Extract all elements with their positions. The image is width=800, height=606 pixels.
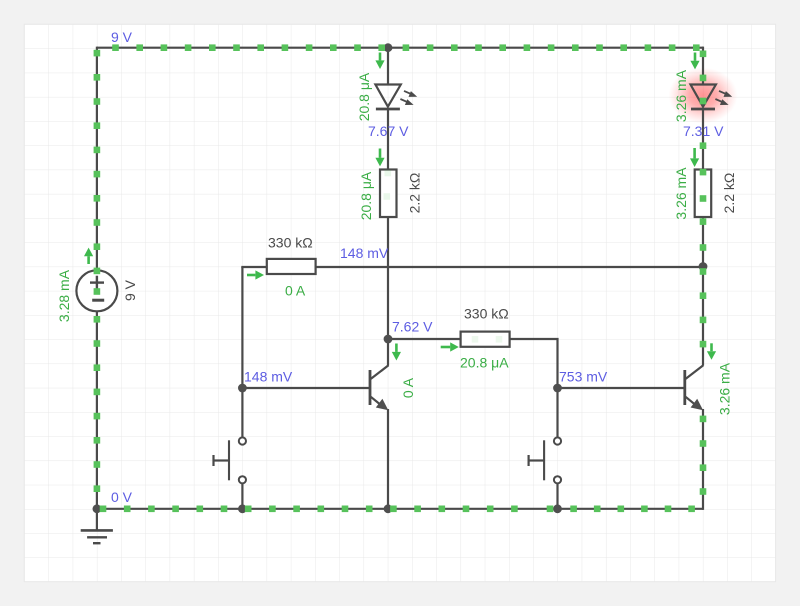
wire R4 to Q2 collector (148 mV net): [702, 216, 704, 366]
svg-text:7.62 V: 7.62 V: [392, 319, 433, 335]
wire Q2 base: [558, 387, 685, 389]
LED D2 (lit): [691, 85, 716, 107]
resistor R3 2.2k (center): [380, 170, 397, 218]
svg-text:9 V: 9 V: [122, 279, 138, 301]
svg-text:9 V: 9 V: [111, 29, 133, 45]
current dots right branch: [700, 51, 707, 58]
current dots bottom rail left: [100, 506, 107, 513]
wire left rail lower: [96, 311, 98, 509]
svg-text:3.26 mA: 3.26 mA: [673, 69, 689, 122]
wire Q1 base: [242, 387, 370, 389]
node ground: [93, 504, 102, 513]
transistor Q1: [369, 370, 372, 405]
current dots bottom rail right: [547, 506, 554, 513]
svg-text:0 A: 0 A: [400, 377, 416, 398]
svg-text:3.26 mA: 3.26 mA: [673, 167, 689, 220]
svg-text:0 A: 0 A: [285, 283, 306, 299]
node S1 bottom: [238, 504, 247, 513]
resistor R1 330k: [267, 259, 316, 274]
switch S1 (pushbutton): [228, 440, 230, 480]
current dot battery center: [94, 288, 101, 295]
current arrow into R1: [247, 274, 255, 277]
node 7.62V: [384, 335, 393, 344]
wire R2 to corner to node 753mV: [510, 339, 558, 388]
wire top rail 9V: [97, 47, 703, 49]
node 148mV right branch: [699, 262, 708, 271]
wire Q2 emitter to bottom rail: [702, 409, 704, 510]
LED D1: [375, 85, 400, 107]
current dots top rail: [112, 44, 119, 51]
wire node to Q1 collector: [387, 339, 389, 366]
current arrow above R3: [379, 149, 382, 158]
wire LED D1 cathode to R3: [387, 108, 389, 171]
node Q1 emitter bottom: [384, 504, 393, 513]
wire node 7.62V to R2: [388, 338, 461, 340]
svg-text:0 V: 0 V: [111, 489, 133, 505]
resistor R2 330k: [461, 332, 510, 347]
current arrow into R2: [441, 346, 451, 349]
current arrow top right corner: [694, 53, 697, 61]
svg-text:753 mV: 753 mV: [559, 369, 608, 385]
svg-text:148 mV: 148 mV: [340, 245, 389, 261]
wire node 148mV corner to R1: [242, 267, 266, 268]
svg-text:148 mV: 148 mV: [244, 369, 293, 385]
resistor R4 2.2k (right): [695, 170, 712, 218]
current arrow LED D1 branch: [379, 53, 382, 61]
svg-text:2.2 kΩ: 2.2 kΩ: [721, 173, 737, 214]
wire R3 to node 7.62V: [387, 216, 389, 339]
wire left rail upper (battery +): [96, 47, 98, 271]
wire bottom rail 0V: [96, 508, 703, 510]
transistor Q2: [683, 370, 686, 405]
svg-text:20.8 μA: 20.8 μA: [356, 72, 372, 121]
current arrow above R4: [693, 148, 696, 158]
wire switch S2 to bottom rail: [556, 483, 558, 509]
wire Q1 emitter to bottom rail: [387, 409, 389, 510]
svg-text:3.28 mA: 3.28 mA: [56, 269, 72, 322]
current arrow Q2 collector: [710, 343, 713, 351]
faint current dots (small current path): [385, 170, 392, 177]
node 148mV left: [238, 384, 247, 393]
switch S2 (pushbutton): [543, 440, 545, 480]
svg-text:20.8 μA: 20.8 μA: [358, 171, 374, 220]
node 753mV: [553, 384, 562, 393]
wire right branch top (to LED D2): [702, 47, 704, 86]
wire LED D2 cathode to R4: [702, 108, 704, 171]
svg-text:7.31 V: 7.31 V: [683, 123, 724, 139]
svg-text:2.2 kΩ: 2.2 kΩ: [407, 173, 423, 214]
svg-text:330 kΩ: 330 kΩ: [268, 235, 313, 251]
svg-text:330 kΩ: 330 kΩ: [464, 306, 509, 322]
svg-text:20.8 μA: 20.8 μA: [460, 355, 509, 371]
wire switch S1 to bottom rail: [241, 483, 243, 509]
current arrow below node 7.62V: [395, 344, 398, 352]
LED D2 glow (lit): [669, 68, 738, 124]
current arrow battery (up): [87, 256, 90, 264]
current dots left rail: [94, 50, 101, 57]
wire drop to switch S2: [556, 388, 558, 438]
wire left drop to switch S1: [241, 267, 243, 438]
wire R1 right to node at right branch (148 mV): [316, 266, 703, 268]
node top (388,48): [384, 43, 393, 52]
battery V1 9V: [76, 270, 117, 311]
svg-text:3.26 mA: 3.26 mA: [717, 362, 733, 415]
node S2 bottom: [553, 504, 562, 513]
wire center branch top (to LED D1): [387, 48, 389, 86]
svg-text:7.67 V: 7.67 V: [368, 123, 409, 139]
ground: [96, 509, 98, 531]
